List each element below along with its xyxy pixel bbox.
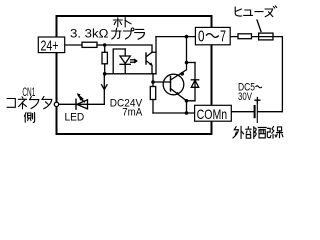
svg-text:24+: 24+: [41, 37, 59, 54]
svg-text:LED: LED: [65, 112, 85, 124]
svg-text:+: +: [254, 94, 261, 108]
svg-text:CN1: CN1: [22, 85, 35, 99]
svg-text:7mA: 7mA: [122, 107, 143, 119]
svg-text:30V: 30V: [238, 91, 252, 103]
svg-text:7: 7: [220, 29, 226, 46]
svg-text:3. 3kΩ: 3. 3kΩ: [70, 29, 109, 41]
svg-text:0: 0: [198, 29, 205, 46]
svg-text:COMn: COMn: [197, 106, 228, 122]
